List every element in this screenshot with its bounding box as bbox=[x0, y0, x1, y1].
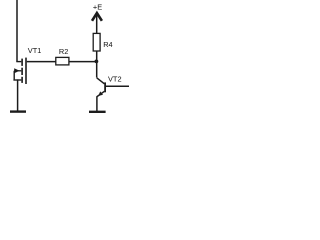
ground left bbox=[10, 110, 26, 112]
transistor VT1 bbox=[13, 58, 26, 84]
svg-text:R2: R2 bbox=[59, 47, 68, 56]
svg-text:+E: +E bbox=[93, 2, 102, 11]
wire source to ground bbox=[17, 79, 19, 111]
resistor R4 bbox=[93, 33, 100, 51]
svg-text:VT1: VT1 bbox=[28, 46, 42, 55]
ground right bbox=[89, 111, 106, 113]
power +E bbox=[92, 2, 102, 33]
node junction bbox=[95, 60, 99, 64]
svg-text:R4: R4 bbox=[103, 40, 112, 49]
svg-text:VT2: VT2 bbox=[108, 74, 122, 83]
wire emitter to ground bbox=[96, 96, 98, 111]
wire gate to R2 bbox=[27, 61, 56, 63]
wire base lead bbox=[106, 85, 129, 87]
wire R2 to node bbox=[69, 61, 97, 63]
wire R4 to collector bbox=[96, 51, 98, 78]
wire drain lead vertical bbox=[16, 0, 18, 62]
resistor R2 bbox=[56, 57, 69, 65]
transistor VT2 bbox=[97, 78, 106, 97]
